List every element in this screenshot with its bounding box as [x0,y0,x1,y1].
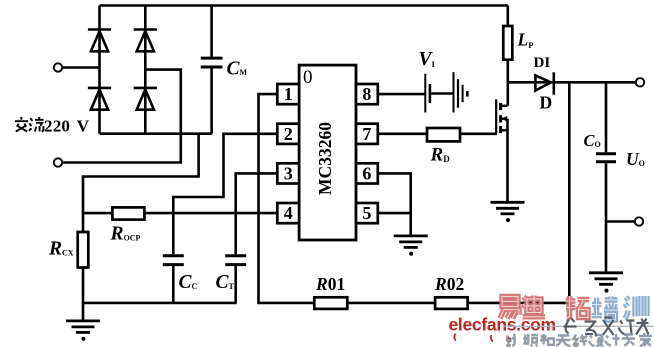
wire AC input 1 [62,66,99,69]
capacitor C_C [163,256,184,265]
AC input terminal 1 [54,63,62,71]
wire bridge branch 1 [98,6,101,134]
resistor R_D [427,128,460,141]
wire negative rail [83,134,199,321]
svg-text:3: 3 [284,163,293,183]
wire C_M bottom [210,69,213,134]
wire C_C bottom [172,266,175,303]
ground (output) [589,273,623,293]
watermark grey script text [564,318,649,337]
wire C_T bottom [234,266,237,303]
op-amp IC U1 MC33260 body [299,65,356,240]
pin 2 [277,124,299,144]
pin 4 [277,203,299,223]
wire feedback net pin1-R01-R02-output [259,82,570,303]
wire pin3 to C_T [236,173,278,254]
wire ground rail [83,302,237,305]
wire R_OCP / pin4 net [83,212,278,215]
wire lower output [606,220,635,223]
pin 6 [356,163,378,183]
capacitor C_M [201,58,223,67]
svg-text:R02: R02 [434,274,464,294]
svg-text:elecfans.com: elecfans.com [449,315,556,335]
diode D3 (bridge upper-right) [134,30,157,52]
ground (IC pins 5,6) [394,236,428,256]
svg-text:5: 5 [362,203,371,223]
svg-text:1: 1 [284,84,293,104]
svg-text:220V: 220V [44,116,90,135]
capacitor C_O [596,154,616,162]
resistor R02 [435,297,468,309]
wire bridge bottom [100,132,212,135]
svg-text:DI: DI [534,55,551,71]
diode DI [535,72,553,94]
wire pin6 pin5 to ground [378,173,411,236]
AC input terminal 2 [54,158,62,166]
resistor R_OCP [112,207,144,219]
inductor L_P [503,26,512,60]
wire L_P top [506,6,509,27]
pin 7 [356,124,378,144]
wire pin2 to C_C [173,134,277,254]
resistor R01 [314,297,347,309]
svg-text:6: 6 [362,163,371,183]
wire C_M top [210,6,213,57]
output terminal - [635,217,643,225]
svg-text:4: 4 [284,203,293,223]
svg-text:D: D [540,93,553,113]
pin 1 [277,84,299,104]
diode D4 (bridge lower-right) [134,88,157,110]
capacitor C_T [225,256,246,265]
pin 3 [277,163,299,183]
watermark logo text blue (pei xun) [592,296,648,320]
transistor Q1 MOSFET [496,99,507,202]
wire C_O top [605,82,608,152]
wire pin7 to R_D to gate [378,133,497,136]
resistor R_CX [78,232,89,268]
output terminal + [636,78,644,86]
watermark bottom tagline [506,333,652,347]
wire C_O bottom [605,163,608,273]
wire L_P bottom / drain [506,60,509,106]
svg-text:7: 7 [362,124,371,144]
watermark logo text pink (yi di tuo) [500,296,589,319]
watermark elecfans.com [449,315,556,342]
diode D1 (bridge upper-left) [88,30,111,52]
pin 8 [356,84,378,104]
battery V_I [425,72,467,112]
ground (MOSFET source) [491,202,525,222]
wire bridge branch 2 [144,6,147,134]
watermark underline artifact [503,325,654,327]
pin 5 [356,203,378,223]
wire pin8 to battery [378,93,425,96]
wire output rail [508,81,636,84]
ground (left rail) [66,321,100,341]
svg-text:MC33260: MC33260 [315,122,335,195]
svg-text:R01: R01 [315,274,345,294]
svg-text:8: 8 [362,84,371,104]
wire AC input 2 [62,70,181,163]
svg-text:0: 0 [303,67,313,88]
diode D2 (bridge lower-left) [88,88,111,110]
svg-text:2: 2 [284,124,293,144]
label AC 220V (jiao liu 220 V) [15,116,90,135]
wire top bus [100,4,508,7]
